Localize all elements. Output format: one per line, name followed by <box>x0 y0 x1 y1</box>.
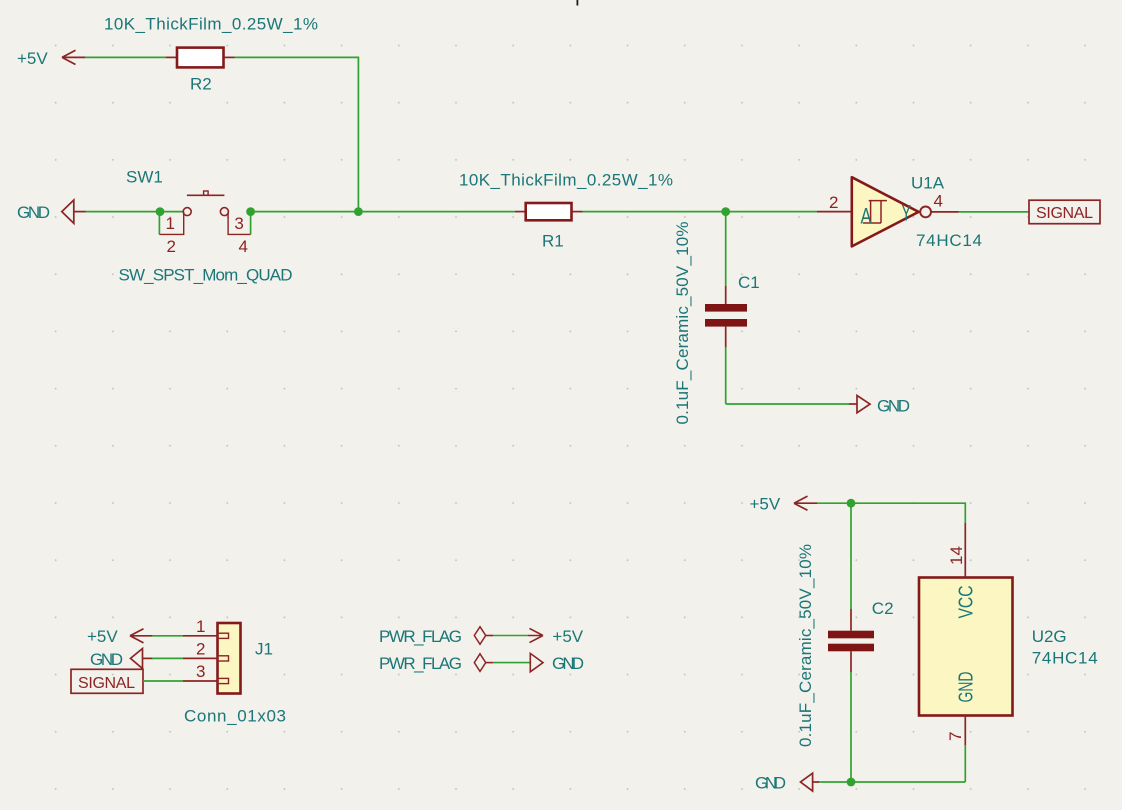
svg-text:14: 14 <box>947 546 966 565</box>
wire C1 to GND flag <box>726 403 849 405</box>
wire J1 pin1 to +5V <box>152 635 183 637</box>
junction (SW1 pin3) <box>246 207 255 216</box>
power label +5V (J1 pin1) <box>87 627 153 646</box>
svg-text:GND: GND <box>90 650 123 669</box>
junction (C2 top) <box>847 499 856 508</box>
value label 0.1uF_Ceramic_50V_10% (C1, vertical) <box>673 222 692 425</box>
svg-text:U2G: U2G <box>1032 627 1067 646</box>
svg-text:GND: GND <box>877 397 910 416</box>
svg-text:R1: R1 <box>542 232 564 251</box>
svg-text:7: 7 <box>946 732 965 741</box>
resistor R2 <box>166 48 235 68</box>
svg-text:C1: C1 <box>738 273 760 292</box>
value label 0.1uF_Ceramic_50V_10% (C2, vertical) <box>796 544 815 747</box>
svg-text:C2: C2 <box>872 599 894 618</box>
junction (C1 tap) <box>721 207 730 216</box>
svg-text:+5V: +5V <box>750 495 781 514</box>
svg-text:2: 2 <box>196 640 205 659</box>
capacitor C1 <box>705 212 747 404</box>
pin 4 of U1A <box>931 192 958 212</box>
svg-text:GND: GND <box>17 203 50 222</box>
switch SW1 body <box>183 191 228 216</box>
svg-text:VCC: VCC <box>955 585 978 618</box>
reference label U2G <box>1032 627 1067 646</box>
value label SW_SPST_Mom_QUAD <box>119 265 293 284</box>
svg-text:Conn_01x03: Conn_01x03 <box>184 707 286 726</box>
pin 7 (GND) <box>946 716 965 746</box>
svg-text:A: A <box>861 203 872 228</box>
wire U1A to SIGNAL <box>959 211 1030 213</box>
svg-text:PWR_FLAG: PWR_FLAG <box>379 627 462 646</box>
svg-text:Y: Y <box>902 201 912 226</box>
power flag PWR_FLAG (+5V) <box>379 627 584 646</box>
reference label C2 <box>872 599 894 618</box>
svg-text:+5V: +5V <box>87 627 118 646</box>
svg-text:GND: GND <box>552 654 584 673</box>
svg-text:+5V: +5V <box>17 49 48 68</box>
pin 2 of J1 <box>183 640 218 659</box>
pin 14 (VCC) <box>947 523 966 578</box>
SW1 pin box 3 <box>228 212 251 235</box>
net label SIGNAL (J1 pin3) <box>71 669 143 693</box>
svg-text:4: 4 <box>239 237 248 256</box>
svg-text:SW1: SW1 <box>126 167 163 186</box>
svg-text:GND: GND <box>755 774 786 793</box>
wire U2G pin7 to GND rail <box>964 745 966 782</box>
junction (C2 bottom) <box>847 778 856 787</box>
value label 74HC14 (U2G) <box>1032 649 1098 668</box>
svg-text:10K_ThickFilm_0.25W_1%: 10K_ThickFilm_0.25W_1% <box>459 170 673 189</box>
power label +5V (U2G) <box>750 495 818 514</box>
pin name GND <box>955 672 978 703</box>
value label 10K_ThickFilm_0.25W_1% (R1) <box>459 170 673 189</box>
value label Conn_01x03 <box>184 707 286 726</box>
wire R2 to node (corner) <box>235 57 359 211</box>
wire GND to SW1 pin1 <box>86 211 184 213</box>
svg-text:SIGNAL: SIGNAL <box>1036 205 1093 222</box>
svg-text:+5V: +5V <box>552 627 583 646</box>
power label GND (bottom right) <box>755 773 819 793</box>
svg-text:U1A: U1A <box>911 174 945 193</box>
pin 1 of J1 <box>183 617 218 636</box>
pin number 2 <box>167 237 176 256</box>
power label GND (C1) <box>849 396 910 416</box>
wire GND rail bottom <box>818 781 965 783</box>
wire R1 to U1A <box>583 211 818 213</box>
pin number 1 <box>166 214 175 233</box>
svg-text:74HC14: 74HC14 <box>1032 649 1098 668</box>
svg-text:3: 3 <box>196 662 205 681</box>
wire J1 pin3 to SIGNAL <box>143 680 183 682</box>
svg-text:1: 1 <box>166 214 175 233</box>
pin 3 of J1 <box>183 662 218 681</box>
svg-text:R2: R2 <box>190 75 212 94</box>
reference label C1 <box>738 273 760 292</box>
value label 74HC14 (U1A) <box>916 231 982 250</box>
svg-text:0.1uF_Ceramic_50V_10%: 0.1uF_Ceramic_50V_10% <box>796 544 815 747</box>
svg-text:1: 1 <box>196 617 205 636</box>
svg-text:10K_ThickFilm_0.25W_1%: 10K_ThickFilm_0.25W_1% <box>104 15 318 34</box>
sheet border tick <box>576 0 578 6</box>
svg-text:4: 4 <box>934 192 943 211</box>
junction (SW1 pin1) <box>156 207 165 216</box>
svg-text:74HC14: 74HC14 <box>916 231 982 250</box>
reference label J1 <box>255 640 273 659</box>
junction (node at x358) <box>354 207 363 216</box>
wire +5V rail (U2G top) <box>817 503 965 523</box>
svg-text:J1: J1 <box>255 640 273 659</box>
reference label U1A <box>911 174 945 193</box>
svg-text:GND: GND <box>955 672 978 703</box>
net label SIGNAL (right) <box>1029 200 1100 224</box>
resistor R1 <box>515 203 583 220</box>
svg-text:3: 3 <box>234 214 243 233</box>
reference label SW1 <box>126 167 163 186</box>
reference label R2 <box>190 75 212 94</box>
pin name VCC <box>955 585 978 618</box>
IC U2G 74HC14 power unit <box>919 578 1013 716</box>
pin 2 of U1A <box>817 193 852 212</box>
wire SW1 to R1 <box>251 211 515 213</box>
SW1 pin box 1 <box>159 212 183 235</box>
pin number 4 <box>239 237 248 256</box>
svg-text:PWR_FLAG: PWR_FLAG <box>379 654 462 673</box>
pin number 3 <box>234 214 243 233</box>
svg-text:SIGNAL: SIGNAL <box>78 675 135 692</box>
svg-text:0.1uF_Ceramic_50V_10%: 0.1uF_Ceramic_50V_10% <box>673 222 692 425</box>
wire +5V to R2 <box>85 56 166 58</box>
connector J1 <box>218 623 241 694</box>
power label +5V (top left) <box>17 49 86 68</box>
power flag PWR_FLAG (GND) <box>379 653 584 673</box>
svg-text:SW_SPST_Mom_QUAD: SW_SPST_Mom_QUAD <box>119 265 293 284</box>
capacitor C2 <box>828 503 874 782</box>
wire J1 pin2 to GND <box>152 657 183 659</box>
reference label R1 <box>542 232 564 251</box>
power label GND (switch row left) <box>17 200 86 223</box>
svg-text:2: 2 <box>167 237 176 256</box>
power label GND (J1 pin2) <box>90 649 153 670</box>
value label 10K_ThickFilm_0.25W_1% (R2) <box>104 15 318 34</box>
svg-text:2: 2 <box>829 193 838 212</box>
op-amp gate U1A 74HC14 <box>852 177 931 246</box>
